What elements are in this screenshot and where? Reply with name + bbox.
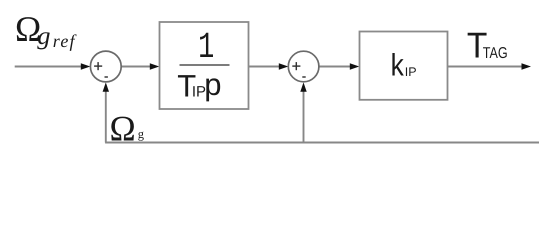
svg-text:p: p bbox=[204, 67, 221, 102]
svg-text:k: k bbox=[391, 47, 405, 82]
svg-text:IP: IP bbox=[405, 65, 417, 79]
svg-text:ref: ref bbox=[53, 31, 78, 51]
svg-text:1: 1 bbox=[198, 27, 214, 69]
svg-text:TAG: TAG bbox=[483, 45, 508, 62]
svg-text:g: g bbox=[138, 127, 145, 141]
svg-text:g: g bbox=[37, 23, 50, 50]
svg-text:Ω: Ω bbox=[110, 109, 136, 149]
